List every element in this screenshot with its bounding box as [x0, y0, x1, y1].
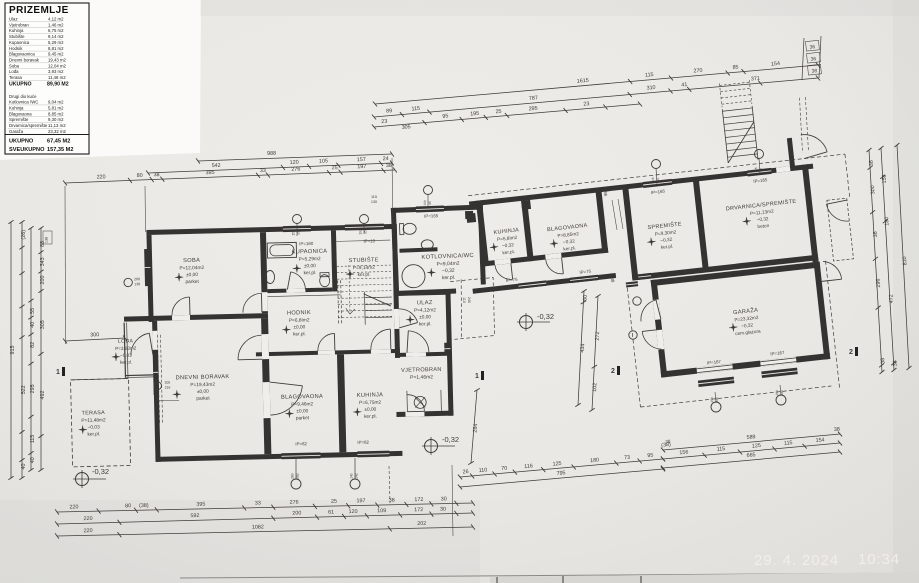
- door opening SOBA: [261, 292, 267, 311]
- svg-text:ker.pl.: ker.pl.: [442, 275, 456, 282]
- svg-text:(26): (26): [21, 230, 27, 240]
- svg-text:36: 36: [809, 44, 815, 51]
- svg-text:282: 282: [296, 473, 300, 479]
- window corridor IP=75 b: [570, 275, 598, 283]
- svg-text:ker.pl.: ker.pl.: [419, 321, 432, 327]
- door arc HODNIK-KUHINJA: [370, 329, 390, 349]
- svg-text:276: 276: [291, 167, 300, 173]
- dashed STUBISTE west wall lower: [338, 280, 339, 325]
- svg-text:89: 89: [386, 108, 393, 115]
- svg-text:10:34: 10:34: [858, 551, 900, 568]
- svg-text:36: 36: [810, 56, 816, 63]
- svg-text:154: 154: [771, 61, 780, 68]
- svg-text:25: 25: [495, 109, 501, 115]
- garage door ramp a: [698, 377, 734, 387]
- toilet KOTLOVNICA: [399, 224, 403, 235]
- svg-text:795: 795: [556, 470, 565, 477]
- svg-text:19,43 m2: 19,43 m2: [48, 58, 67, 63]
- svg-text:180: 180: [590, 457, 599, 464]
- svg-text:P=4,12m2: P=4,12m2: [414, 307, 436, 314]
- svg-text:38: 38: [811, 68, 817, 75]
- dim chain right vertical Vc: [897, 145, 909, 368]
- svg-text:205: 205: [165, 380, 171, 384]
- door arc ULAZ-VJETROBRAN: [408, 330, 429, 352]
- room label SOBA: [174, 258, 205, 286]
- dim chain right vertical Va: [869, 150, 882, 372]
- wall KOTLOVNICA west: [391, 208, 399, 296]
- dashed roof edge near stair: [796, 98, 805, 153]
- svg-text:9,30 m2: 9,30 m2: [48, 117, 64, 122]
- svg-text:Kuhinja: Kuhinja: [9, 28, 24, 33]
- toilet KUPAONICA: [320, 273, 329, 277]
- wall ULAZ north: [393, 291, 450, 296]
- svg-text:29. 4. 2024: 29. 4. 2024: [754, 552, 839, 569]
- svg-text:40: 40: [21, 464, 27, 470]
- svg-text:UKUPNO: UKUPNO: [9, 82, 31, 88]
- svg-text:41: 41: [681, 82, 688, 89]
- external stair diagonal: [724, 122, 758, 163]
- svg-text:240: 240: [715, 397, 719, 403]
- svg-text:115: 115: [651, 177, 655, 183]
- svg-text:IP=62: IP=62: [295, 441, 307, 446]
- level marker -0,32 porch: [425, 440, 438, 453]
- wall BLAGOVAONA2 east: [595, 189, 608, 253]
- external stair top: [722, 109, 728, 163]
- svg-text:589: 589: [746, 434, 756, 441]
- svg-text:1,46 m2: 1,46 m2: [48, 22, 64, 27]
- svg-text:8,85 m2: 8,85 m2: [48, 111, 64, 116]
- next page gray band: [490, 572, 919, 583]
- bathtub KUPAONICA: [267, 242, 296, 258]
- svg-text:115: 115: [784, 440, 793, 447]
- door arc east terrace lower: [823, 260, 842, 281]
- svg-text:73: 73: [624, 455, 631, 462]
- svg-text:150: 150: [292, 230, 296, 236]
- door opening DNEVNI-LODJA: [152, 331, 158, 356]
- svg-text:195: 195: [470, 111, 479, 118]
- window SOBA west 200/138: [144, 249, 151, 286]
- door opening SOBA south: [172, 315, 190, 320]
- svg-text:80: 80: [137, 173, 143, 179]
- svg-text:P=9,46m2: P=9,46m2: [291, 401, 313, 408]
- svg-text:ker.pl.: ker.pl.: [358, 272, 371, 278]
- svg-text:1: 1: [475, 373, 479, 380]
- dashed overhang garage south: [640, 386, 831, 407]
- TERASA hatch line: [71, 378, 129, 379]
- circle marker above drvarnica window: [755, 150, 764, 159]
- door arc external stair: [801, 132, 827, 154]
- svg-text:IP=165: IP=165: [424, 213, 439, 219]
- door arc GARAGE west upper: [639, 300, 658, 322]
- dim chain left vertical line3: [30, 228, 32, 470]
- door opening HODNIK-KUHINJA: [371, 349, 391, 353]
- svg-text:P=9,14m2: P=9,14m2: [353, 265, 375, 272]
- wall stub east of stair: [787, 138, 795, 168]
- wall right-wing north exterior: [469, 164, 813, 207]
- svg-text:parket: parket: [296, 415, 310, 421]
- svg-text:ULAZ: ULAZ: [417, 300, 433, 306]
- room label HODNIK: [282, 310, 312, 338]
- svg-text:305: 305: [40, 320, 46, 329]
- svg-text:110: 110: [462, 297, 466, 303]
- porch steps outline: [406, 391, 409, 412]
- dim chain left vertical line4: [40, 228, 42, 470]
- svg-text:150: 150: [710, 397, 714, 403]
- svg-text:220: 220: [97, 174, 106, 180]
- door opening ULAZ-VJETROBRAN: [406, 352, 426, 356]
- svg-text:-0,32: -0,32: [92, 467, 109, 476]
- svg-text:665: 665: [746, 452, 756, 459]
- svg-text:9,04 m2: 9,04 m2: [48, 100, 64, 105]
- wall KOTLOVNICA north: [391, 204, 483, 213]
- svg-text:300: 300: [870, 185, 877, 194]
- level marker -0,32 mid: [520, 316, 533, 329]
- dim vertical 60 434 at mid: [578, 291, 584, 405]
- svg-text:BLAGOVAONA: BLAGOVAONA: [281, 394, 323, 401]
- svg-text:ker.pl.: ker.pl.: [87, 431, 100, 437]
- svg-text:±0,00: ±0,00: [304, 263, 316, 269]
- svg-text:2: 2: [611, 368, 615, 375]
- wall DNEVNI west exterior: [152, 321, 160, 462]
- door arc DNEVNI east: [237, 335, 262, 360]
- leader line DNEVNI west window: [154, 399, 179, 402]
- room label DRVARNICA/SPREMISTE: [725, 198, 798, 233]
- svg-text:158: 158: [882, 174, 889, 183]
- circle marker above stubiste window: [360, 215, 369, 224]
- svg-text:70: 70: [501, 466, 508, 473]
- svg-text:Ulaz: Ulaz: [9, 17, 18, 22]
- svg-text:Terasa: Terasa: [9, 75, 23, 80]
- svg-text:IP=82: IP=82: [357, 440, 369, 445]
- svg-text:295: 295: [30, 384, 36, 393]
- sink KOTLOVNICA: [421, 240, 433, 250]
- next page edge line: [180, 573, 919, 578]
- svg-text:P=6,8Im2: P=6,8Im2: [289, 317, 310, 324]
- svg-text:9,45 m2: 9,45 m2: [48, 52, 64, 57]
- next page marks: [496, 577, 498, 583]
- svg-text:Kotlovnica /WC: Kotlovnica /WC: [9, 100, 38, 105]
- dashed overhang right wing north: [468, 154, 845, 196]
- svg-text:23: 23: [583, 101, 589, 107]
- wall GARAGE north: [651, 262, 821, 287]
- stair cut diagonal: [363, 293, 390, 307]
- wall STUBISTE east: [392, 229, 399, 292]
- svg-text:2: 2: [849, 349, 853, 356]
- door arc SOBA south: [172, 297, 190, 315]
- svg-text:P=1,46m2: P=1,46m2: [410, 374, 433, 381]
- label 200/138 west window: [124, 278, 133, 287]
- svg-text:240: 240: [467, 297, 471, 303]
- svg-text:KUHINJA: KUHINJA: [357, 392, 384, 399]
- stair walk arrow: [346, 308, 350, 314]
- dim chain top-right T3: [374, 104, 640, 127]
- svg-text:434: 434: [580, 343, 586, 352]
- shading right edge: [893, 0, 919, 583]
- svg-text:±0,00: ±0,00: [296, 408, 308, 414]
- wall left-wing top exterior: [146, 224, 397, 235]
- thin line HODNIK north face: [268, 295, 341, 297]
- wall left-wing west exterior: [147, 235, 154, 322]
- wall GARAGE south: [661, 353, 831, 378]
- circle marker above kupaonica window: [293, 215, 302, 224]
- room label BLAGOVAONA: [281, 394, 324, 422]
- window VJETROBRAN east: [444, 343, 450, 355]
- LODJA railing west: [124, 323, 125, 378]
- door opening VJETROBRAN entry: [405, 411, 424, 416]
- svg-text:180: 180: [884, 216, 891, 225]
- corridor south wall: [472, 273, 616, 294]
- door opening drvarnica north: [776, 166, 790, 173]
- svg-text:142: 142: [355, 473, 359, 479]
- svg-text:55: 55: [30, 308, 36, 314]
- room label GARAZA: [727, 306, 761, 337]
- door arc KUHINJA2: [495, 263, 513, 281]
- svg-text:200: 200: [134, 277, 140, 281]
- svg-text:140: 140: [350, 473, 354, 479]
- extension line bottom right corner: [452, 465, 453, 536]
- svg-text:125: 125: [552, 461, 561, 468]
- svg-text:-0,32: -0,32: [442, 435, 459, 444]
- wall KOTLOVNICA east: [478, 204, 486, 284]
- window KOTLOVNICA north IP=165: [416, 205, 444, 212]
- svg-text:240: 240: [780, 390, 784, 396]
- svg-text:Dnevni boravak: Dnevni boravak: [9, 58, 40, 63]
- svg-text:Lođa: Lođa: [9, 69, 19, 74]
- window BLAGOVAONA south IP=62: [281, 452, 320, 459]
- svg-text:192: 192: [359, 229, 363, 235]
- svg-text:P=19,43m2: P=19,43m2: [190, 382, 215, 389]
- svg-text:±0,00: ±0,00: [293, 324, 305, 330]
- wall SPREMISTE west: [622, 186, 638, 280]
- shading bottom left: [0, 500, 480, 583]
- svg-text:157: 157: [357, 157, 366, 163]
- svg-text:1: 1: [56, 369, 60, 376]
- svg-text:395: 395: [205, 170, 214, 176]
- svg-text:296: 296: [876, 278, 883, 287]
- svg-text:Vjetrobran: Vjetrobran: [9, 22, 29, 27]
- pilaster KOTLOVNICA NE: [465, 211, 473, 219]
- svg-text:±0,00: ±0,00: [186, 272, 198, 278]
- door arc KUPAONICA: [291, 272, 306, 290]
- dim vertical 272 102 at mid: [592, 296, 598, 410]
- window KUPAONICA north IP=160: [283, 225, 311, 232]
- svg-text:Kuhinja: Kuhinja: [9, 106, 24, 111]
- window spremiste south: [638, 273, 652, 280]
- svg-text:Drugi dio kuće: Drugi dio kuće: [9, 94, 37, 99]
- svg-text:33: 33: [260, 168, 266, 174]
- svg-text:ker.pl.: ker.pl.: [293, 331, 306, 337]
- svg-text:8,81 m2: 8,81 m2: [48, 46, 64, 51]
- circle marker below blagovaona window: [291, 479, 301, 489]
- svg-text:6,75 m2: 6,75 m2: [48, 28, 64, 33]
- svg-text:157,35 M2: 157,35 M2: [47, 147, 73, 153]
- door opening GARAGE west lower: [656, 329, 664, 350]
- wall KUPAONICA east: [331, 230, 337, 291]
- door opening HODNIK-BLAGOVAONA: [318, 350, 335, 354]
- svg-text:HODNIK: HODNIK: [287, 310, 311, 317]
- garage door ramp b: [761, 368, 797, 378]
- sink KUPAONICA: [265, 270, 274, 283]
- svg-text:310: 310: [646, 85, 655, 92]
- svg-text:-0,32: -0,32: [537, 312, 554, 321]
- svg-text:TERASA: TERASA: [82, 410, 106, 417]
- svg-text:VJETROBRAN: VJETROBRAN: [401, 367, 442, 374]
- room label BLAGOVAONA2: [547, 223, 590, 253]
- svg-text:89,90 M2: 89,90 M2: [47, 82, 69, 88]
- svg-text:988: 988: [267, 151, 276, 157]
- dim chain bottom-left E2: [57, 513, 473, 524]
- circle marker above spremiste window: [652, 160, 661, 169]
- svg-text:115: 115: [371, 195, 377, 199]
- svg-text:110: 110: [478, 467, 487, 474]
- passage dashed lines garage west: [627, 288, 640, 407]
- svg-text:11,13 m2: 11,13 m2: [48, 123, 66, 128]
- pilaster KUHINJA2 NW: [466, 213, 476, 223]
- stair walk line dashed: [349, 265, 350, 314]
- opening HODNIK-STUBISTE: [340, 286, 390, 295]
- external stair dashed continuation: [720, 82, 750, 85]
- svg-text:343: 343: [40, 257, 46, 266]
- door arc BLAGOVAONA2: [546, 258, 564, 276]
- svg-text:60: 60: [582, 295, 588, 301]
- circle marker garage passage b: [629, 331, 637, 339]
- svg-text:SVEUKUPNO: SVEUKUPNO: [9, 147, 45, 153]
- svg-text:UKUPNO: UKUPNO: [9, 139, 34, 145]
- door opening DNEVNI east: [261, 334, 269, 359]
- LODJA south edge: [125, 374, 153, 377]
- svg-text:38: 38: [834, 427, 841, 434]
- svg-text:25: 25: [332, 165, 338, 171]
- window KUHINJA south IP=82: [357, 451, 389, 458]
- svg-text:ker.pl.: ker.pl.: [364, 414, 377, 420]
- svg-text:522: 522: [21, 385, 27, 394]
- circle marker below garage door b: [776, 395, 786, 405]
- svg-text:95: 95: [442, 113, 448, 119]
- room label TERASA: [78, 410, 106, 438]
- svg-text:−0,03: −0,03: [88, 424, 101, 430]
- dashed canopy ULAZ east: [450, 278, 494, 340]
- room label KOTLOVNICA/WC: [421, 253, 475, 282]
- dim chain left vertical line2: [21, 222, 23, 478]
- half wall KOTLOVNICA WC: [399, 247, 437, 252]
- wall HODNIK south: [256, 349, 400, 357]
- svg-text:26: 26: [462, 469, 469, 476]
- svg-text:60: 60: [759, 168, 763, 172]
- dim chain top-right T2: [374, 78, 818, 117]
- room label STUBISTE: [345, 256, 379, 278]
- room label VJETROBRAN: [401, 367, 442, 381]
- door arc GARAGE west lower: [642, 330, 661, 352]
- svg-text:24: 24: [383, 156, 389, 162]
- svg-text:38: 38: [880, 358, 886, 364]
- svg-text:12,04 m2: 12,04 m2: [48, 63, 67, 68]
- svg-text:787: 787: [529, 95, 538, 102]
- wall left-wing south exterior: [155, 451, 402, 462]
- svg-text:IP=10: IP=10: [363, 238, 375, 243]
- svg-text:115: 115: [645, 72, 654, 79]
- svg-text:Hodnik: Hodnik: [9, 46, 23, 51]
- stair landing edge: [336, 240, 390, 241]
- room label DNEVNI BORAVAK: [172, 374, 230, 402]
- wall KUPAONICA south: [267, 287, 332, 293]
- dim chain bottom-right D1 589: [663, 434, 840, 450]
- window corridor IP=75 a: [518, 280, 546, 288]
- wall ULAZ east exterior upper: [393, 292, 400, 358]
- svg-text:40: 40: [30, 322, 36, 328]
- svg-text:95: 95: [428, 201, 432, 205]
- svg-text:Soba: Soba: [9, 63, 20, 68]
- door opening GARAGE south a: [696, 364, 732, 374]
- stair treads STUBISTE dashed: [337, 265, 391, 266]
- dim boxed 36 36 38 top right: [806, 40, 820, 51]
- svg-text:Spremište: Spremište: [9, 117, 29, 122]
- dim chain right vertical Vb: [881, 148, 894, 370]
- door opening GARAGE south b: [760, 357, 796, 367]
- wall KOTLOVNICA south: [394, 289, 456, 296]
- extension line x145 to soba corner: [144, 186, 147, 232]
- svg-text:95: 95: [364, 230, 368, 234]
- svg-text:Garaža: Garaža: [9, 129, 24, 134]
- svg-text:IP=160: IP=160: [299, 241, 314, 246]
- boxed 138 label top-left chains: [43, 231, 52, 244]
- TERASA dashed outline: [71, 378, 131, 466]
- svg-text:125: 125: [752, 443, 762, 450]
- svg-text:115: 115: [716, 446, 725, 453]
- wall KUHINJA2 west: [476, 200, 489, 266]
- legend totals box: [5, 134, 89, 136]
- door arc SOBA: [242, 293, 261, 312]
- door opening DNEVNI-BLAGOVAONA: [263, 382, 271, 418]
- svg-text:138: 138: [45, 237, 49, 243]
- svg-text:ker.pl.: ker.pl.: [304, 270, 317, 276]
- svg-text:P=3,93m2: P=3,93m2: [115, 346, 137, 352]
- wall DNEVNI east: [261, 318, 271, 454]
- dim chain top-left row1 988: [198, 154, 392, 161]
- svg-text:300: 300: [90, 332, 99, 338]
- svg-text:Blagovaona: Blagovaona: [9, 111, 32, 116]
- wall SPREMISTE east: [693, 178, 709, 272]
- wall KUHINJA2 BLAGOVAONA2 south: [483, 248, 609, 267]
- extension dashed bottom 38: [389, 466, 390, 503]
- svg-text:130: 130: [371, 200, 377, 204]
- wall under SOBA / LODJA top: [124, 313, 268, 322]
- svg-text:SOBA: SOBA: [183, 258, 200, 264]
- svg-text:115: 115: [30, 435, 36, 444]
- svg-text:60: 60: [656, 178, 660, 182]
- terrace dashed east: [827, 198, 854, 261]
- svg-text:±0,00: ±0,00: [364, 407, 376, 413]
- circle marker above kotlovnica window: [424, 186, 433, 195]
- room label SPREMISTE: [645, 220, 684, 251]
- svg-text:5,29 m2: 5,29 m2: [48, 40, 64, 45]
- svg-text:95: 95: [297, 231, 301, 235]
- wall DRVARNICA east exterior: [802, 164, 819, 262]
- svg-text:156: 156: [679, 450, 689, 457]
- svg-text:38: 38: [665, 439, 671, 444]
- circle marker below garage door a: [711, 402, 721, 412]
- svg-text:115: 115: [754, 167, 758, 173]
- svg-text:9,14 m2: 9,14 m2: [48, 34, 64, 39]
- white patch behind legend: [0, 0, 201, 160]
- wall GARAGE west: [651, 279, 668, 377]
- svg-text:parket: parket: [185, 279, 199, 285]
- svg-text:200: 200: [40, 276, 46, 285]
- svg-text:11,48 m2: 11,48 m2: [48, 75, 66, 80]
- svg-text:38: 38: [873, 231, 879, 237]
- extension line x65 top-left to terasa: [64, 186, 67, 344]
- svg-text:915: 915: [10, 346, 16, 355]
- svg-text:PRIZEMLJE: PRIZEMLJE: [9, 5, 69, 16]
